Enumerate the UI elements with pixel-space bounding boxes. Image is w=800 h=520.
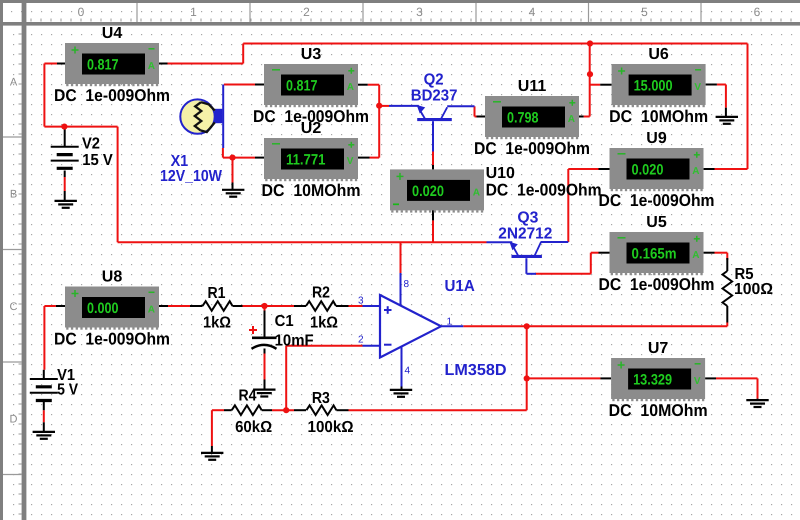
svg-text:U1A: U1A — [445, 278, 476, 295]
svg-text:Q2: Q2 — [424, 72, 444, 89]
svg-text:4: 4 — [405, 366, 411, 377]
svg-text:U5: U5 — [646, 214, 667, 231]
svg-text:V2: V2 — [82, 135, 100, 152]
svg-text:2: 2 — [358, 335, 364, 346]
svg-text:DC 1e-009Ohm: DC 1e-009Ohm — [474, 139, 590, 158]
svg-text:A: A — [568, 114, 575, 125]
svg-text:U3: U3 — [301, 46, 322, 63]
svg-text:R3: R3 — [312, 390, 330, 407]
svg-text:B: B — [10, 189, 17, 201]
svg-text:1kΩ: 1kΩ — [310, 314, 338, 331]
svg-text:100kΩ: 100kΩ — [308, 419, 354, 436]
svg-text:0.165m: 0.165m — [632, 246, 677, 263]
svg-text:1: 1 — [190, 5, 197, 19]
svg-text:10mF: 10mF — [275, 332, 314, 349]
svg-text:U4: U4 — [102, 25, 123, 42]
svg-text:2N2712: 2N2712 — [498, 225, 552, 242]
svg-text:4: 4 — [529, 5, 536, 19]
svg-text:1kΩ: 1kΩ — [203, 314, 231, 331]
svg-text:5 V: 5 V — [57, 382, 78, 399]
svg-text:12V_10W: 12V_10W — [160, 168, 223, 185]
svg-text:0.020: 0.020 — [632, 162, 664, 179]
svg-text:DC 10MOhm: DC 10MOhm — [609, 107, 708, 126]
svg-text:DC 1e-009Ohm: DC 1e-009Ohm — [54, 86, 170, 105]
svg-text:BD237: BD237 — [411, 87, 458, 104]
svg-text:V: V — [694, 376, 701, 387]
svg-text:11.771: 11.771 — [286, 152, 326, 169]
svg-text:0.817: 0.817 — [286, 78, 318, 95]
svg-text:C1: C1 — [275, 313, 294, 330]
svg-text:U9: U9 — [646, 130, 667, 147]
svg-text:DC 10MOhm: DC 10MOhm — [262, 181, 361, 200]
svg-text:R2: R2 — [312, 284, 330, 301]
svg-text:DC 1e-009Ohm: DC 1e-009Ohm — [599, 275, 715, 294]
svg-text:DC 1e-009Ohm: DC 1e-009Ohm — [599, 191, 715, 210]
svg-text:U11: U11 — [518, 78, 547, 95]
svg-text:60kΩ: 60kΩ — [235, 419, 272, 436]
svg-text:15.000: 15.000 — [634, 78, 673, 95]
svg-text:R4: R4 — [239, 388, 257, 405]
svg-text:V: V — [694, 82, 701, 93]
svg-text:U8: U8 — [102, 269, 123, 286]
svg-text:R1: R1 — [208, 285, 226, 302]
svg-text:LM358D: LM358D — [445, 362, 507, 379]
svg-text:13.329: 13.329 — [633, 372, 672, 389]
svg-text:C: C — [10, 301, 18, 313]
svg-text:A: A — [148, 61, 155, 72]
svg-text:3: 3 — [358, 296, 364, 307]
svg-text:8: 8 — [404, 279, 410, 290]
svg-text:V: V — [347, 156, 354, 167]
svg-text:DC 1e-009Ohm: DC 1e-009Ohm — [54, 330, 170, 349]
svg-text:0.817: 0.817 — [87, 57, 119, 74]
svg-text:5: 5 — [641, 5, 648, 19]
svg-text:100Ω: 100Ω — [734, 281, 773, 298]
svg-text:6: 6 — [754, 5, 761, 19]
svg-text:D: D — [10, 414, 18, 426]
svg-text:A: A — [692, 250, 699, 261]
svg-text:DC 1e-009Ohm: DC 1e-009Ohm — [486, 180, 602, 199]
svg-text:0.000: 0.000 — [87, 300, 119, 317]
svg-text:A: A — [148, 305, 155, 316]
svg-text:A: A — [347, 82, 354, 93]
svg-text:A: A — [692, 166, 699, 177]
svg-text:1: 1 — [447, 317, 453, 328]
svg-text:U2: U2 — [301, 120, 322, 137]
svg-text:15 V: 15 V — [82, 152, 113, 169]
svg-text:A: A — [473, 188, 480, 199]
svg-text:0.020: 0.020 — [412, 183, 444, 200]
svg-text:U6: U6 — [648, 46, 669, 63]
svg-text:0.798: 0.798 — [507, 110, 539, 127]
svg-text:A: A — [10, 77, 18, 89]
svg-text:Q3: Q3 — [517, 209, 538, 226]
svg-text:U7: U7 — [648, 340, 669, 357]
svg-text:DC 10MOhm: DC 10MOhm — [609, 401, 708, 420]
svg-text:3: 3 — [416, 5, 423, 19]
svg-text:0: 0 — [78, 5, 85, 19]
svg-text:2: 2 — [303, 5, 310, 19]
